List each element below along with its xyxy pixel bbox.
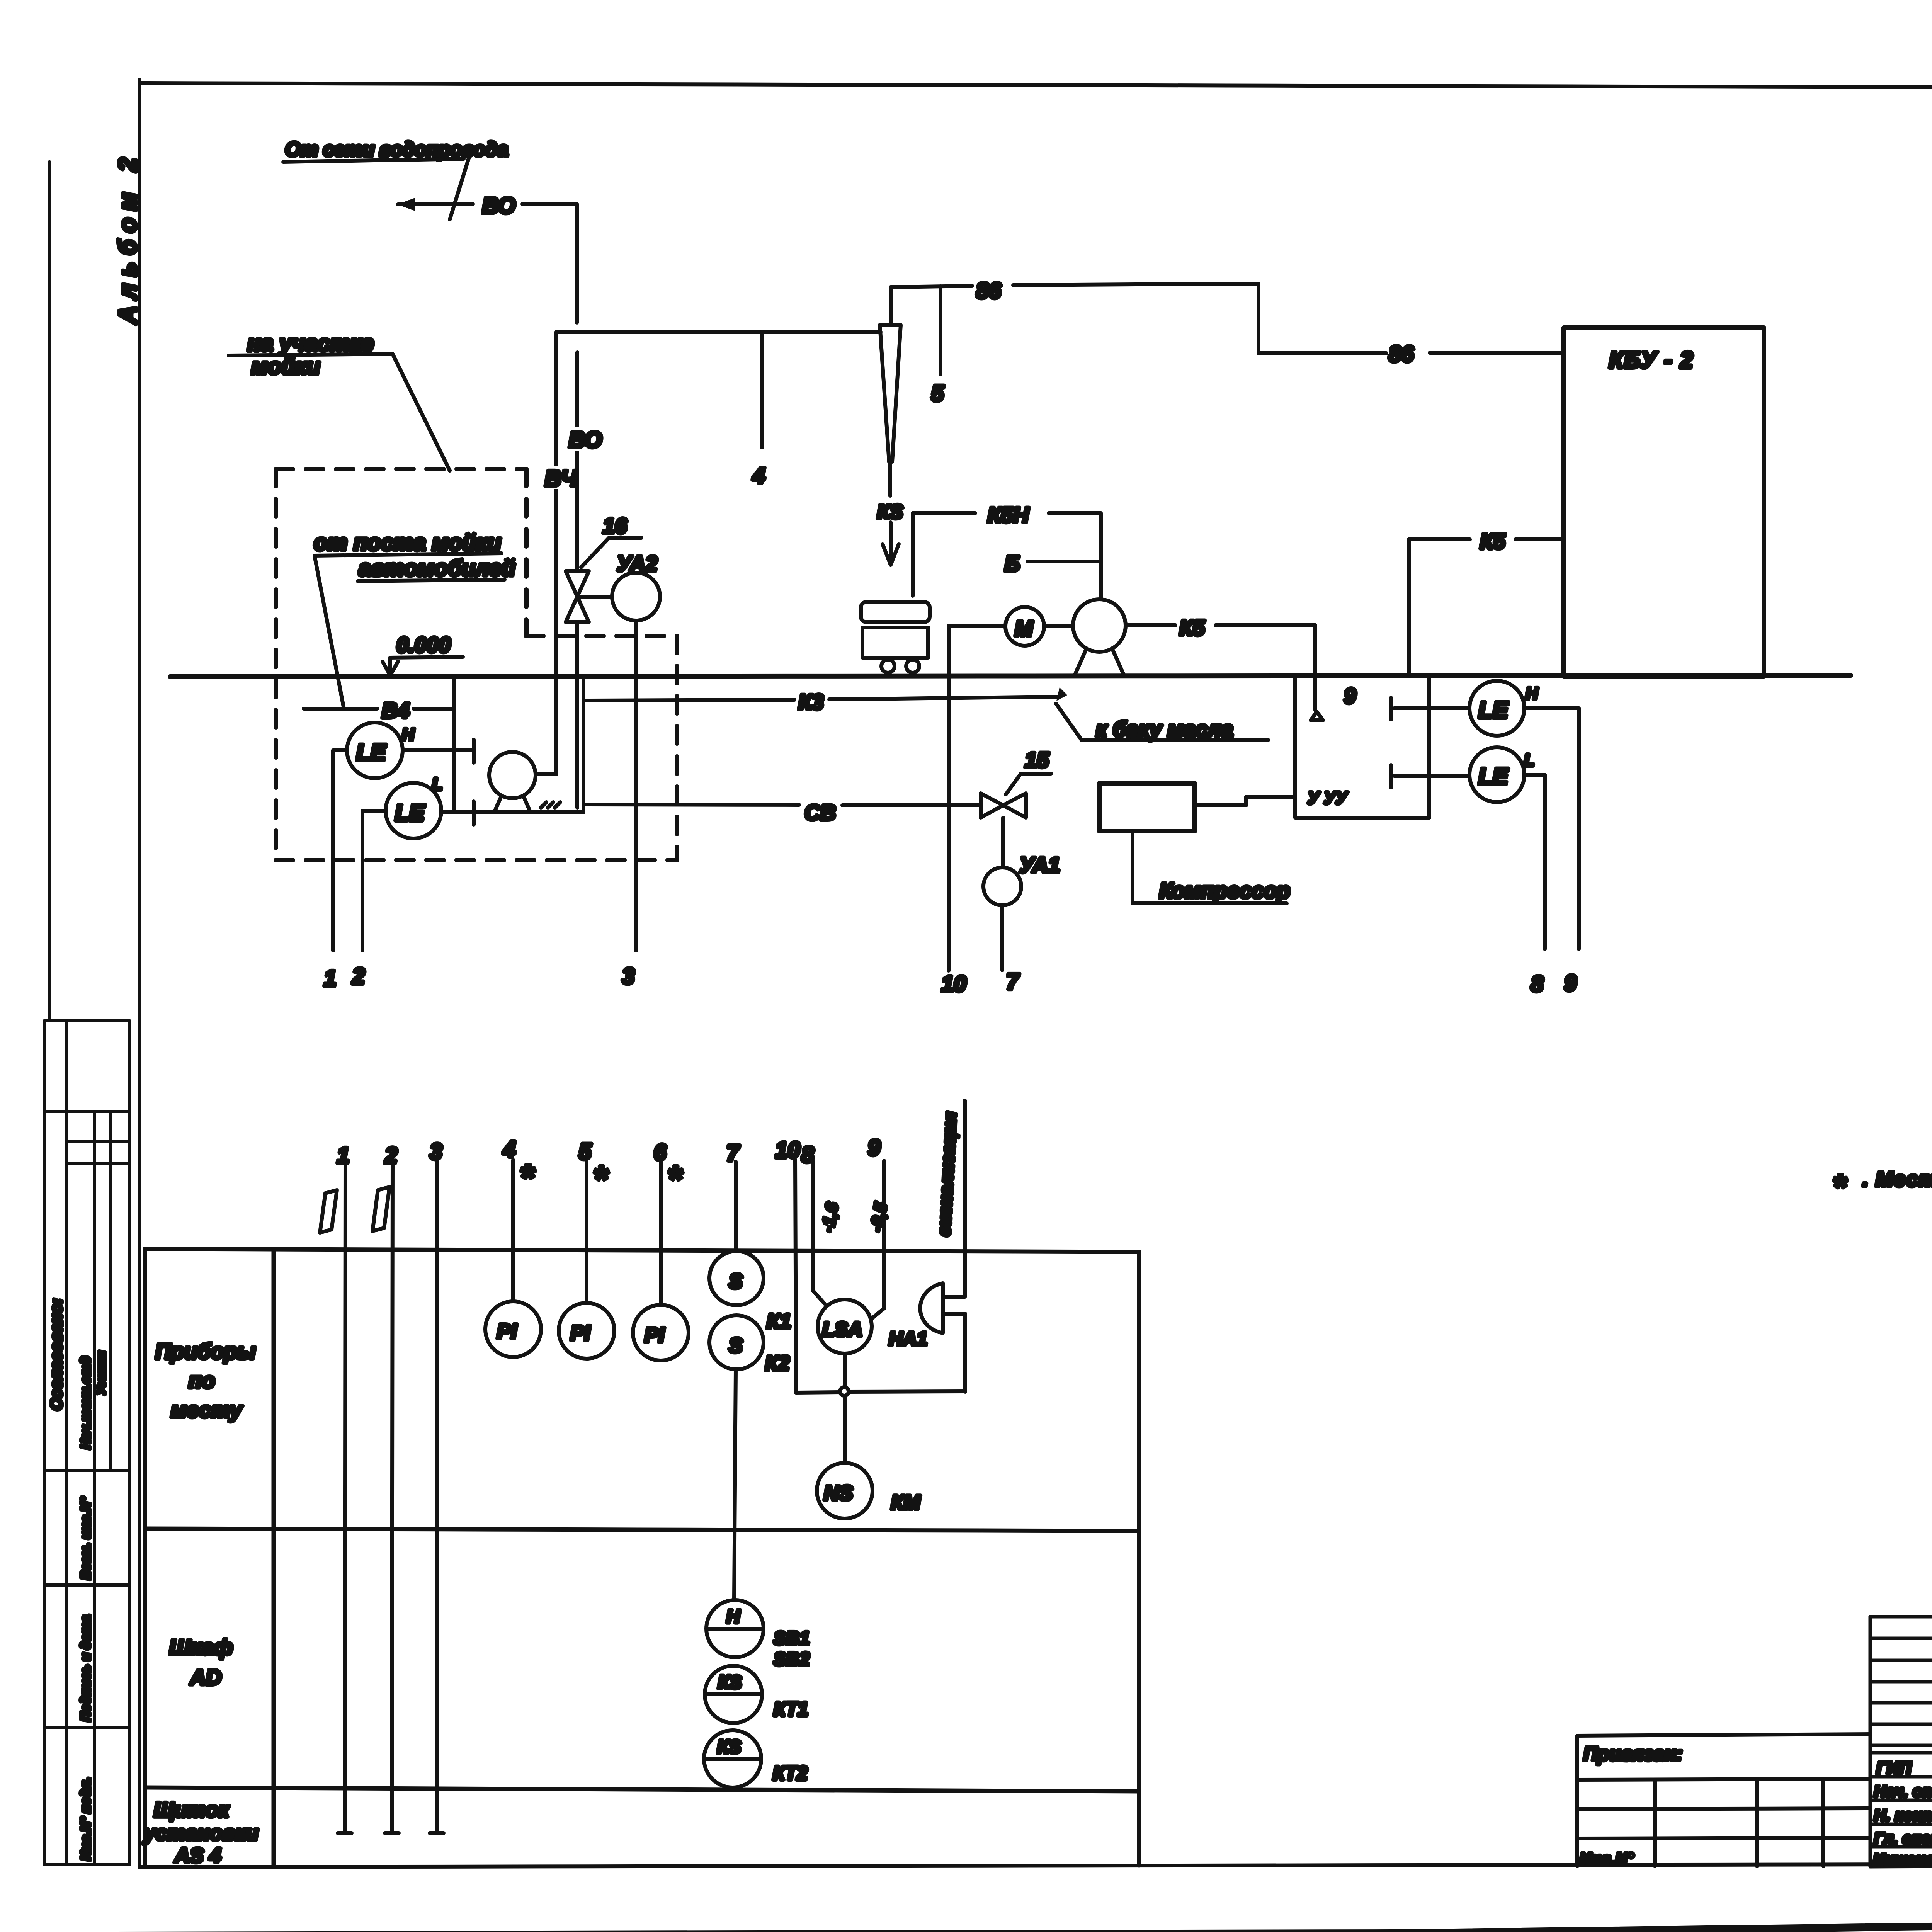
pipe BO vertical bbox=[577, 204, 577, 808]
svg-text:Н: Н bbox=[726, 1607, 740, 1627]
valve UA2 on BO line bbox=[566, 571, 612, 622]
svg-text:по: по bbox=[189, 1368, 215, 1393]
svg-text:М: М bbox=[1015, 616, 1033, 641]
svg-text:*: * bbox=[593, 1158, 609, 1200]
time relay KS KT1 bbox=[705, 1666, 808, 1723]
item 16 label bbox=[581, 514, 641, 567]
svg-text:мойки: мойки bbox=[251, 354, 320, 379]
time relay KS KT2 bbox=[704, 1730, 808, 1787]
row label cabinet AD bbox=[169, 1635, 233, 1689]
svg-text:установки: установки bbox=[143, 1821, 259, 1845]
bottom edge thick line bbox=[116, 1919, 1932, 1932]
line 4 bbox=[752, 332, 765, 488]
pipe BO arrow from water main bbox=[397, 198, 473, 211]
switch S K2 bbox=[709, 1315, 789, 1375]
wire column 1 bbox=[345, 1162, 345, 1833]
pipe B label bbox=[1005, 551, 1101, 576]
svg-text:Н: Н bbox=[402, 725, 415, 744]
dashed enclosure washing bay bbox=[276, 469, 677, 860]
switch S K1 bbox=[709, 1251, 791, 1333]
svg-text:У УУ: У УУ bbox=[1308, 789, 1348, 808]
svg-text:86: 86 bbox=[976, 278, 1001, 303]
svg-text:К3: К3 bbox=[798, 690, 824, 714]
svg-text:1: 1 bbox=[337, 1143, 349, 1168]
level switch LSA bbox=[813, 1274, 884, 1354]
svg-text:Н. контр: Н. контр bbox=[1874, 1806, 1932, 1824]
svg-text:16: 16 bbox=[603, 514, 627, 538]
svg-text:7: 7 bbox=[1006, 969, 1020, 994]
level sensor LE L (right) bbox=[1391, 747, 1545, 802]
svg-text:КS: КS bbox=[877, 501, 903, 523]
ground line bbox=[170, 675, 1851, 677]
svg-text:КТ1: КТ1 bbox=[774, 1698, 808, 1720]
svg-text:От сети водопровода: От сети водопровода bbox=[285, 138, 508, 161]
pipe SV bbox=[583, 800, 981, 825]
hydrocyclone (filter) bbox=[880, 325, 901, 496]
svg-text:Привязан:: Привязан: bbox=[1583, 1743, 1682, 1765]
flow marks at wires 1,2 bbox=[320, 1187, 389, 1233]
water supply label bbox=[283, 138, 508, 219]
wire 7 down to cabinet bbox=[734, 1369, 736, 1600]
svg-text:L: L bbox=[432, 775, 442, 794]
row label panel AS4 bbox=[143, 1798, 259, 1867]
svg-text:*: * bbox=[1832, 1168, 1847, 1206]
svg-text:К2: К2 bbox=[765, 1352, 789, 1375]
svg-text:РI: РI bbox=[570, 1321, 590, 1345]
valve 15 on SV line bbox=[981, 793, 1026, 818]
wire column 10 bbox=[795, 1160, 796, 1393]
svg-text:КМ: КМ bbox=[891, 1492, 921, 1514]
svg-text:L: L bbox=[1524, 751, 1534, 770]
stamp rotated labels bbox=[47, 1298, 108, 1861]
svg-text:К5Н: К5Н bbox=[988, 503, 1029, 527]
svg-text:Б: Б bbox=[1005, 551, 1020, 576]
svg-text:9: 9 bbox=[1344, 684, 1356, 708]
svg-text:от поста мойки: от поста мойки bbox=[314, 530, 501, 555]
svg-text:К5: К5 bbox=[1179, 616, 1205, 640]
svg-text:*: * bbox=[519, 1157, 536, 1198]
junction node bbox=[796, 1354, 965, 1463]
svg-text:К5: К5 bbox=[1480, 529, 1505, 553]
svg-text:NS: NS bbox=[824, 1481, 853, 1505]
elevation mark 0.000 bbox=[383, 633, 463, 675]
svg-text:Н: Н bbox=[1526, 684, 1538, 703]
svg-text:7: 7 bbox=[726, 1141, 740, 1166]
svg-text:месту: месту bbox=[171, 1398, 243, 1422]
svg-text:РI: РI bbox=[645, 1323, 665, 1347]
svg-text:НА1: НА1 bbox=[889, 1328, 927, 1350]
solenoid UA2 bbox=[612, 551, 660, 621]
svg-text:автомобилей: автомобилей bbox=[359, 556, 515, 581]
svg-text:LE: LE bbox=[356, 740, 387, 765]
svg-text:к баку масла: к баку масла bbox=[1096, 717, 1233, 741]
wire 2 bbox=[352, 811, 365, 989]
SV line to tank bbox=[1195, 797, 1295, 805]
svg-text:9: 9 bbox=[1564, 971, 1577, 996]
push button H SB1 SB2 bbox=[706, 1600, 810, 1670]
svg-text:Компрессор: Компрессор bbox=[1159, 878, 1290, 903]
KBU-2 control cabinet bbox=[1564, 328, 1764, 676]
linked block bbox=[1577, 1734, 1870, 1866]
svg-text:РI: РI bbox=[497, 1320, 517, 1343]
svg-text:ГИП: ГИП bbox=[1876, 1759, 1912, 1777]
row label local instruments bbox=[155, 1339, 256, 1422]
starter NS KM bbox=[817, 1463, 921, 1519]
rotated limit labels bbox=[818, 1111, 960, 1236]
svg-text:УА2: УА2 bbox=[617, 551, 657, 576]
sheet left border bbox=[138, 80, 141, 1867]
drain funnel 9 bbox=[1311, 684, 1356, 720]
svg-text:Инженер: Инженер bbox=[1873, 1850, 1932, 1868]
VCh pipe label bbox=[544, 466, 578, 491]
wire 8 (right) bbox=[1531, 775, 1545, 997]
sheet top border bbox=[139, 83, 1932, 89]
svg-text:Инв.N° подл.: Инв.N° подл. bbox=[78, 1777, 93, 1861]
svg-text:1: 1 bbox=[324, 966, 336, 991]
signature labels bbox=[1873, 1759, 1932, 1868]
wire column 5 bbox=[585, 1161, 588, 1303]
item 15 label bbox=[1006, 748, 1051, 794]
svg-text:Альбом 2: Альбом 2 bbox=[114, 151, 141, 325]
horn HA1 bbox=[889, 1283, 965, 1392]
svg-text:SВ1: SВ1 bbox=[774, 1628, 810, 1649]
svg-text:на участке: на участке bbox=[247, 331, 374, 356]
instrument table frame bbox=[145, 1249, 1139, 1866]
wire column 3 bbox=[437, 1160, 437, 1833]
oil tank line K3 bbox=[583, 687, 1268, 741]
svg-text:АS 4: АS 4 bbox=[174, 1844, 221, 1867]
svg-text:ВЧ: ВЧ bbox=[545, 466, 578, 491]
stamp column left margin bbox=[44, 1021, 130, 1865]
svg-text:Щиток: Щиток bbox=[154, 1798, 230, 1821]
svg-text:АD: АD bbox=[189, 1665, 221, 1689]
svg-text:SВ2: SВ2 bbox=[774, 1649, 810, 1670]
footnote bbox=[1832, 1168, 1932, 1206]
sheet bottom border bbox=[139, 1863, 1932, 1867]
motor M bbox=[1005, 607, 1044, 646]
wire 10 bbox=[941, 626, 966, 997]
wire column 7 bbox=[734, 1162, 738, 1251]
svg-text:КS: КS bbox=[718, 1672, 742, 1693]
pressure gauge PI 5 bbox=[559, 1303, 614, 1359]
svg-text:-0,5: -0,5 bbox=[867, 1201, 891, 1233]
tank 9 walls bbox=[1295, 676, 1429, 818]
svg-text:Шкаф: Шкаф bbox=[169, 1635, 233, 1659]
pipe V4 suction bbox=[304, 707, 454, 711]
svg-text:Инв.N°: Инв.N° bbox=[1580, 1849, 1634, 1867]
svg-text:Нач. отд.: Нач. отд. bbox=[1874, 1782, 1932, 1800]
wire column 2 bbox=[392, 1162, 393, 1833]
wire BO horizontal bbox=[522, 202, 577, 206]
svg-text:LE: LE bbox=[1478, 764, 1509, 789]
svg-text:LSА: LSА bbox=[822, 1318, 862, 1341]
pipe VCh vertical (pump discharge) bbox=[536, 332, 556, 774]
svg-text:5: 5 bbox=[931, 381, 944, 406]
svg-text:Подпись и дата: Подпись и дата bbox=[78, 1615, 93, 1721]
svg-text:УА1: УА1 bbox=[1019, 853, 1060, 877]
left margin line bbox=[48, 162, 51, 1021]
revision grid bbox=[1870, 1617, 1932, 1867]
pressure gauge PI 6 bbox=[633, 1305, 689, 1361]
pump wiring and K5 discharge bbox=[951, 616, 1315, 710]
pressure gauge PI 4 bbox=[485, 1301, 541, 1357]
level sensor LE H (right) bbox=[1391, 681, 1579, 736]
line 5 bbox=[931, 286, 944, 406]
pipe VCh horizontal to hydrocyclone bbox=[556, 330, 881, 334]
drainage pump in pit bbox=[489, 752, 560, 811]
wire column 8 bbox=[811, 1162, 815, 1274]
svg-text:Нач.техн.отд: Нач.техн.отд bbox=[78, 1356, 93, 1449]
svg-text:КТ2: КТ2 bbox=[773, 1762, 808, 1784]
svg-text:*: * bbox=[667, 1158, 683, 1200]
svg-text:К1: К1 bbox=[767, 1310, 791, 1333]
svg-text:15: 15 bbox=[1025, 748, 1049, 772]
svg-text:Уешкин: Уешкин bbox=[95, 1351, 108, 1395]
column numbers row bbox=[337, 1135, 880, 1200]
wire 1 bbox=[324, 750, 336, 991]
svg-text:Согласовано:: Согласовано: bbox=[47, 1298, 65, 1410]
svg-text:0.000: 0.000 bbox=[396, 633, 451, 657]
svg-text:9: 9 bbox=[868, 1135, 880, 1160]
svg-text:сигнализация: сигнализация bbox=[934, 1111, 960, 1236]
wire 7 bbox=[1002, 905, 1020, 994]
BO pipe label bbox=[568, 427, 602, 452]
svg-text:S: S bbox=[729, 1270, 743, 1293]
pipe B6 to KBU-2 bbox=[891, 278, 1564, 367]
label post washing cars bbox=[314, 530, 515, 709]
solenoid UA1 bbox=[983, 818, 1060, 905]
svg-text:8: 8 bbox=[1531, 971, 1544, 997]
svg-text:Гл. спец.: Гл. спец. bbox=[1874, 1829, 1932, 1847]
KS drain label and arrow bbox=[877, 501, 903, 565]
wire column 9 bbox=[882, 1161, 886, 1308]
svg-text:. Местные приборы учтены ко: . Местные приборы учтены комплектом Т Х. bbox=[1862, 1168, 1932, 1191]
svg-text:3: 3 bbox=[622, 964, 634, 989]
svg-text:2: 2 bbox=[352, 964, 365, 989]
svg-text:LE: LE bbox=[395, 800, 425, 826]
main pump bbox=[1073, 599, 1126, 675]
svg-text:ВО: ВО bbox=[569, 427, 602, 452]
wire 9 (right) bbox=[1564, 708, 1579, 996]
svg-text:10: 10 bbox=[941, 971, 966, 997]
svg-text:Взам. инв.N°: Взам. инв.N° bbox=[78, 1497, 93, 1580]
wire column 6 bbox=[659, 1162, 663, 1305]
svg-text:-1,6: -1,6 bbox=[818, 1201, 842, 1233]
svg-text:КS: КS bbox=[717, 1737, 741, 1757]
svg-text:ВО: ВО bbox=[482, 193, 515, 218]
level sensor LE H (left) bbox=[333, 723, 474, 778]
svg-text:СВ: СВ bbox=[804, 800, 836, 825]
level sensor LE L (left) bbox=[362, 775, 474, 838]
signal wire to horn bbox=[963, 1100, 967, 1297]
svg-text:LE: LE bbox=[1478, 697, 1509, 723]
pit walls bbox=[454, 677, 583, 812]
washing area label bbox=[229, 331, 450, 471]
svg-text:Приборы: Приборы bbox=[155, 1339, 256, 1363]
svg-text:S: S bbox=[729, 1334, 743, 1357]
wire column 4 bbox=[511, 1160, 515, 1301]
svg-text:В4: В4 bbox=[382, 698, 410, 723]
pipe K5N bbox=[913, 503, 1101, 599]
wire 3 from UA2 bbox=[622, 621, 636, 989]
pipe K5 into KBU-2 bbox=[1409, 529, 1564, 675]
compressor bbox=[1099, 783, 1290, 903]
svg-text:86: 86 bbox=[1389, 342, 1414, 367]
svg-text:4: 4 bbox=[752, 463, 765, 488]
svg-text:КБУ - 2: КБУ - 2 bbox=[1609, 347, 1694, 373]
sludge cart bbox=[861, 602, 930, 673]
